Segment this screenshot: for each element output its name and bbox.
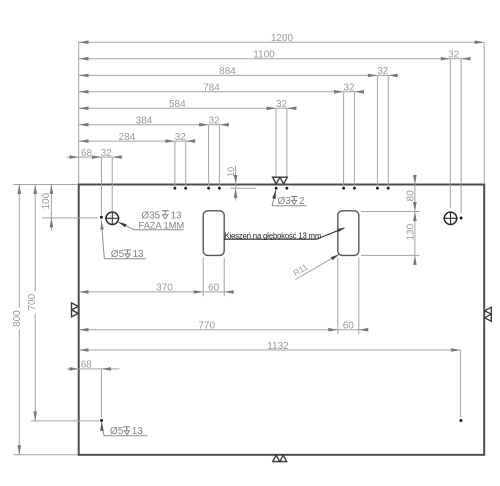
svg-text:584: 584: [169, 99, 186, 110]
svg-text:284: 284: [119, 132, 136, 143]
svg-text:130: 130: [405, 223, 416, 240]
svg-text:2: 2: [299, 196, 305, 207]
svg-text:32: 32: [208, 116, 220, 127]
svg-text:32: 32: [175, 132, 187, 143]
svg-text:800: 800: [12, 310, 23, 327]
svg-text:1100: 1100: [253, 50, 275, 61]
svg-text:32: 32: [377, 66, 389, 77]
svg-text:FAZA 1MM: FAZA 1MM: [139, 219, 185, 230]
svg-text:384: 384: [136, 116, 153, 127]
svg-text:80: 80: [405, 190, 416, 202]
svg-text:10: 10: [226, 167, 236, 177]
svg-text:60: 60: [208, 283, 220, 294]
svg-text:60: 60: [343, 321, 355, 332]
svg-text:1200: 1200: [271, 33, 294, 44]
svg-text:32: 32: [101, 148, 113, 159]
svg-text:770: 770: [198, 321, 215, 332]
svg-text:784: 784: [203, 83, 220, 94]
svg-text:32: 32: [276, 99, 288, 110]
svg-text:700: 700: [27, 293, 38, 310]
svg-text:370: 370: [156, 283, 173, 294]
svg-text:32: 32: [448, 50, 460, 61]
svg-text:Ø3: Ø3: [278, 196, 292, 207]
svg-text:1132: 1132: [267, 341, 289, 352]
svg-text:68: 68: [81, 360, 93, 371]
svg-text:884: 884: [219, 66, 236, 77]
svg-text:32: 32: [343, 83, 355, 94]
svg-text:68: 68: [81, 148, 93, 159]
svg-text:100: 100: [41, 192, 52, 209]
